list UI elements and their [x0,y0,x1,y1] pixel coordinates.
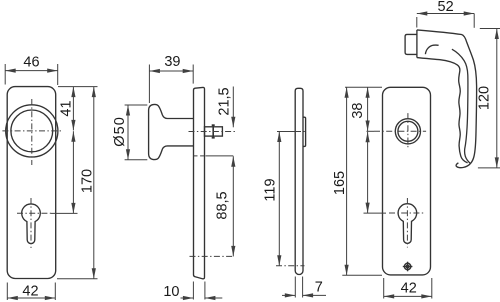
dimension 41 [72,87,74,131]
dimension 52 [416,17,418,28]
dimension 88,5 [232,156,234,256]
reference line keyhole center to dimension [51,212,78,214]
spindle screw line [212,125,214,139]
cylinder axis reference view3 [276,265,305,267]
bottom extension line left view [57,278,98,280]
rose centerline vertical [407,113,409,149]
handle lever outer edge [417,30,477,168]
svg-text:170: 170 [80,169,96,193]
keyhole centerline horizontal [17,212,51,214]
hidden reference line (dashed) [194,155,206,157]
knob axis centerline side view [189,131,238,133]
svg-text:88,5: 88,5 [214,191,230,219]
svg-text:21,5: 21,5 [217,87,233,115]
svg-text:7: 7 [315,280,323,296]
dimension 7 [294,277,296,298]
dimension 46 top [4,64,6,85]
knob inner circle [11,110,53,152]
bottom extension line right view [342,274,382,276]
top extension line left view [58,86,98,88]
keyhole centerline vertical [30,198,32,248]
plate side profile [194,87,205,278]
keyhole PZ cylinder, left plate [22,204,41,244]
svg-text:Ø50: Ø50 [112,116,128,147]
spindle square side view [205,127,223,136]
handle spindle boss [405,34,417,54]
svg-text:42: 42 [22,283,38,299]
lever plate side profile [295,88,303,274]
dimension 39 [148,65,150,104]
dimension 21,5 [232,87,234,128]
dimension 119 [278,132,280,266]
svg-text:52: 52 [438,0,454,15]
svg-text:41: 41 [59,100,75,116]
knob centerline vertical [31,99,33,165]
keyhole centerline vertical right [406,198,408,248]
top extension line right view [345,86,382,88]
svg-text:120: 120 [476,86,492,110]
svg-text:38: 38 [350,103,366,119]
rose outer circle [395,119,420,144]
handle lever middle contour [452,49,471,163]
dimension 42 bottom left [6,283,8,301]
reference line keyhole to dimension right [364,212,387,214]
svg-text:119: 119 [262,178,278,201]
handle neck face [416,30,418,58]
knob centerline horizontal [2,130,62,132]
svg-text:165: 165 [332,171,348,195]
handle axis reference line view3 [277,131,295,133]
rose inner circle [398,121,418,141]
dimension 10 plate thickness [192,282,194,300]
svg-text:39: 39 [164,54,180,70]
dimension rose center to keyhole (unlabeled right) [367,132,369,213]
lever plate front view [383,87,431,275]
keyhole PZ cylinder, right plate [398,204,417,244]
handle lever inner edge with grip waves [417,58,468,163]
dimension 42 bottom right [383,278,385,299]
dimension 38 [367,87,369,131]
svg-text:10: 10 [163,284,179,300]
handle sculpt arc near neck [425,45,438,54]
knob outer circle [6,105,58,157]
dimension diameter 50 [125,104,148,106]
dimension 170 [93,87,95,279]
dimension 165 [346,87,348,275]
handle hub bump side [303,117,306,146]
rose centerline horizontal [374,130,426,132]
svg-text:42: 42 [401,281,417,297]
svg-text:46: 46 [23,54,39,70]
knob plate front view [7,87,56,279]
dimension 120 [480,28,500,30]
cylinder axis side view [190,255,234,257]
keyhole centerline horizontal right [389,212,425,214]
screw head symbol [403,262,413,272]
knob side profile [149,104,194,159]
dimension knob center to keyhole center (unlabeled) [72,131,74,213]
